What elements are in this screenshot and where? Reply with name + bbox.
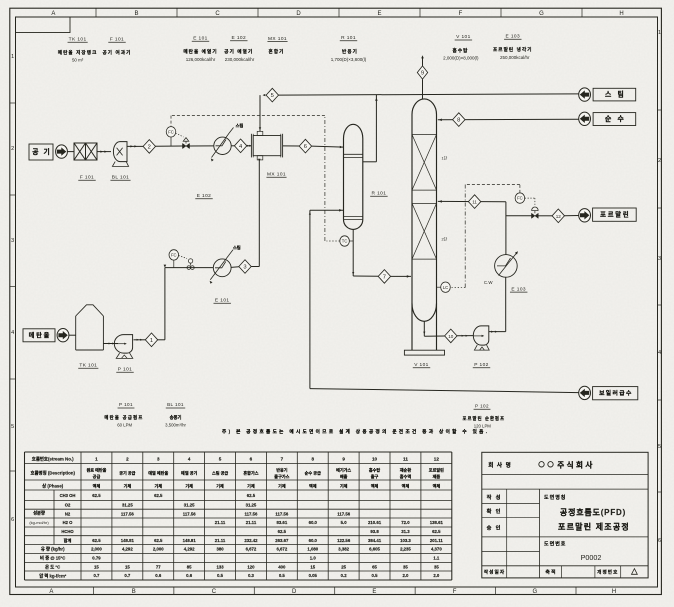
svg-text:62.5: 62.5	[432, 529, 441, 534]
feed label box boiler feed water (보일러급수)	[593, 387, 638, 400]
svg-text:21.11: 21.11	[215, 520, 226, 525]
svg-text:원료 메탄올: 원료 메탄올	[86, 467, 106, 473]
steam header wire	[279, 94, 579, 95]
io arrow symbol methanol	[57, 329, 69, 342]
steam riser from R101 to header	[363, 161, 377, 163]
svg-text:포르말린: 포르말린	[429, 467, 444, 473]
flow controller instrument on air line	[166, 127, 176, 137]
svg-text:E 101: E 101	[215, 298, 230, 304]
svg-text:G: G	[532, 589, 537, 595]
stream node 6	[299, 139, 311, 153]
svg-text:77: 77	[156, 564, 161, 569]
wire valve to E102	[189, 145, 213, 147]
svg-text:P 102: P 102	[474, 362, 488, 368]
stream node 4	[234, 139, 246, 153]
wire stream10 to pump P102	[457, 335, 473, 337]
svg-text:액체: 액체	[93, 483, 101, 489]
svg-text:201.11: 201.11	[430, 538, 444, 543]
vent arrow to atmosphere	[422, 57, 424, 66]
svg-text:1: 1	[658, 30, 661, 36]
svg-text:TK 101: TK 101	[79, 363, 97, 369]
svg-text:성분량: 성분량	[33, 510, 45, 517]
svg-text:FC: FC	[171, 253, 177, 258]
svg-text:5.0: 5.0	[341, 520, 348, 525]
svg-text:R 101: R 101	[371, 191, 386, 197]
svg-text:P 101: P 101	[119, 402, 133, 407]
svg-text:포르말린: 포르말린	[600, 210, 630, 219]
svg-text:C.W: C.W	[484, 280, 493, 285]
svg-text:도면번호: 도면번호	[544, 541, 566, 548]
svg-text:주) 본 공정흐름도는 예시도면이므로 설계 상용공정의 운: 주) 본 공정흐름도는 예시도면이므로 설계 상용공정의 운전조건 등과 상이할…	[222, 428, 489, 435]
svg-text:5: 5	[271, 93, 274, 99]
svg-text:1: 1	[150, 338, 153, 344]
svg-text:2.0: 2.0	[433, 573, 440, 578]
svg-text:비 중 @ 15°C: 비 중 @ 15°C	[40, 555, 65, 562]
packed bed 1	[412, 134, 437, 136]
control signal TC loop dashed	[327, 240, 340, 242]
cooling water arrow through E103	[499, 252, 518, 275]
svg-text:포르말린 냉각기: 포르말린 냉각기	[493, 46, 533, 53]
svg-text:148.81: 148.81	[121, 538, 135, 543]
io arrow symbol pure water	[579, 112, 591, 125]
svg-text:6: 6	[658, 538, 661, 544]
svg-text:230,000kcal/hr: 230,000kcal/hr	[225, 57, 255, 62]
heat exchanger E102 (air preheater)	[214, 137, 231, 154]
level controller LC	[437, 286, 441, 288]
svg-text:H2 O: H2 O	[63, 520, 74, 525]
svg-text:보일러급수: 보일러급수	[599, 389, 633, 397]
title block frame	[482, 452, 648, 578]
svg-text:3: 3	[11, 238, 14, 244]
svg-text:포르말린 제조공정: 포르말린 제조공정	[558, 522, 630, 532]
recycle inlet wire	[438, 200, 506, 202]
svg-text:15: 15	[310, 564, 315, 569]
pump discharge wire up to cooler	[489, 331, 506, 333]
svg-text:0.7: 0.7	[124, 573, 131, 578]
svg-text:31.25: 31.25	[122, 503, 133, 508]
grid letter strip top	[95, 8, 97, 17]
svg-text:축 적: 축 적	[545, 569, 555, 576]
svg-text:263.67: 263.67	[275, 538, 289, 543]
svg-text:232.42: 232.42	[244, 538, 258, 543]
control signal LC-FC dashed loop	[519, 185, 521, 193]
svg-text:60.0: 60.0	[309, 520, 318, 525]
svg-text:R 101: R 101	[341, 35, 356, 41]
stream node 7	[378, 270, 390, 284]
steam inlet arrow E101	[229, 250, 233, 255]
svg-text:35: 35	[403, 564, 408, 569]
feed label box methanol (메탄올)	[23, 329, 55, 342]
svg-text:21.11: 21.11	[215, 538, 226, 543]
svg-text:P 102: P 102	[475, 404, 489, 409]
svg-text:400: 400	[278, 564, 286, 569]
svg-text:E 102: E 102	[232, 35, 247, 41]
svg-text:액체: 액체	[433, 483, 441, 489]
svg-text:1: 1	[95, 457, 98, 462]
svg-text:회 사 명: 회 사 명	[488, 461, 512, 469]
svg-text:4,292: 4,292	[184, 547, 195, 552]
svg-text:공기 예열기: 공기 예열기	[224, 48, 253, 55]
filter F101	[74, 143, 97, 160]
svg-text:BL 101: BL 101	[167, 402, 184, 407]
svg-text:P 101: P 101	[118, 367, 132, 373]
svg-text:1.1: 1.1	[433, 556, 440, 561]
stream node 9	[417, 66, 427, 79]
svg-text:2,000: 2,000	[153, 547, 164, 552]
svg-text:E 103: E 103	[511, 286, 526, 292]
svg-text:12: 12	[556, 214, 562, 219]
svg-text:31.3: 31.3	[401, 529, 410, 534]
svg-text:H: H	[619, 11, 623, 17]
svg-text:117.56: 117.56	[275, 511, 289, 516]
wire air to filter	[67, 151, 74, 153]
svg-text:60.0: 60.0	[309, 538, 318, 543]
svg-text:승 인: 승 인	[487, 524, 502, 532]
svg-text:4,292: 4,292	[122, 547, 133, 552]
svg-text:F: F	[459, 11, 463, 17]
svg-text:0.5: 0.5	[279, 573, 286, 578]
stream node 11	[468, 195, 480, 209]
svg-text:흡수탑: 흡수탑	[453, 47, 469, 54]
svg-text:11: 11	[472, 200, 477, 205]
svg-text:3: 3	[157, 457, 160, 462]
svg-text:3,500m³/hr: 3,500m³/hr	[165, 423, 186, 428]
wire mixer outlet to stream6	[283, 145, 300, 147]
svg-text:0.5: 0.5	[372, 573, 379, 578]
svg-text:4: 4	[658, 350, 661, 356]
wire filter to blower	[97, 151, 111, 153]
svg-text:상 (Phase): 상 (Phase)	[42, 483, 64, 490]
svg-text:흡수액: 흡수액	[400, 473, 412, 479]
svg-text:117.56: 117.56	[183, 511, 197, 516]
svg-text:D: D	[292, 589, 297, 595]
svg-text:2,000: 2,000	[91, 547, 102, 552]
svg-text:메탄올 저장탱크: 메탄올 저장탱크	[58, 49, 98, 56]
svg-text:35: 35	[434, 564, 439, 569]
svg-text:기체: 기체	[278, 483, 286, 489]
pump P102	[473, 326, 489, 345]
svg-text:3,382: 3,382	[338, 547, 349, 552]
svg-text:11: 11	[403, 457, 408, 462]
svg-text:5: 5	[219, 457, 222, 462]
svg-text:흐름명칭 (Description): 흐름명칭 (Description)	[30, 470, 75, 477]
wire steam down into mixer top	[259, 95, 261, 131]
svg-text:C: C	[212, 589, 217, 595]
svg-text:혼합기: 혼합기	[269, 48, 285, 55]
svg-text:1,700(D)×3,800(l): 1,700(D)×3,800(l)	[331, 57, 367, 62]
svg-text:93.8: 93.8	[370, 529, 379, 534]
svg-text:117.56: 117.56	[244, 511, 258, 516]
product label box steam (스팀)	[593, 88, 636, 101]
product control valve	[532, 213, 539, 218]
svg-text:1,080: 1,080	[307, 547, 318, 552]
svg-text:B: B	[134, 11, 138, 17]
svg-text:D: D	[296, 11, 301, 17]
flow controller FC product	[515, 193, 525, 203]
io arrow symbol air	[56, 145, 68, 158]
svg-text:E 103: E 103	[506, 34, 521, 40]
svg-text:210.61: 210.61	[368, 520, 382, 525]
svg-text:5: 5	[658, 444, 661, 450]
cooler E103	[495, 255, 518, 278]
svg-text:F: F	[453, 589, 457, 595]
svg-text:E: E	[372, 589, 376, 595]
svg-text:액체: 액체	[309, 483, 317, 489]
svg-text:흡수탑: 흡수탑	[369, 467, 381, 473]
svg-text:작성일자: 작성일자	[484, 569, 505, 576]
svg-text:합계: 합계	[64, 537, 72, 544]
wire methanol to tank	[69, 334, 76, 336]
svg-text:122.56: 122.56	[337, 538, 351, 543]
svg-text:2,235: 2,235	[400, 547, 411, 552]
svg-text:4: 4	[188, 457, 191, 462]
svg-text:V 101: V 101	[456, 34, 471, 40]
svg-text:액체: 액체	[371, 483, 379, 489]
stream node 2	[143, 140, 155, 154]
svg-text:8: 8	[457, 118, 460, 124]
svg-text:21.11: 21.11	[246, 520, 257, 525]
svg-text:H: H	[612, 589, 616, 595]
bottom dished head	[412, 304, 437, 322]
svg-text:31.25: 31.25	[184, 503, 195, 508]
io arrow symbol boiler feed water	[579, 386, 591, 399]
svg-text:MX 101: MX 101	[267, 172, 286, 178]
svg-text:G: G	[539, 11, 544, 17]
svg-text:공 기: 공 기	[32, 147, 51, 156]
stream node 1	[145, 333, 157, 347]
svg-text:주식회사: 주식회사	[557, 459, 595, 469]
svg-text:62.5: 62.5	[92, 538, 101, 543]
svg-text:A: A	[49, 589, 53, 595]
svg-text:순 수: 순 수	[605, 114, 626, 123]
svg-text:6: 6	[250, 457, 253, 462]
svg-text:C: C	[215, 11, 220, 17]
svg-text:공기 여과기: 공기 여과기	[102, 49, 131, 56]
flow controller FC methanol	[169, 250, 179, 260]
svg-text:62.5: 62.5	[154, 538, 163, 543]
svg-text:흐름번호(stream No.): 흐름번호(stream No.)	[32, 456, 74, 463]
methanol storage tank TK101	[76, 305, 104, 316]
wire to formalin outlet	[565, 215, 579, 217]
svg-text:15: 15	[94, 564, 99, 569]
svg-text:120: 120	[247, 564, 255, 569]
wire blower to stream2	[127, 145, 143, 147]
vent wire from column top	[422, 79, 424, 99]
product label box formalin (포르말린)	[593, 208, 637, 221]
svg-text:9: 9	[342, 457, 345, 462]
svg-text:72.0: 72.0	[401, 520, 410, 525]
svg-text:60 LPM: 60 LPM	[117, 423, 132, 428]
svg-text:(kg-mol/hr): (kg-mol/hr)	[29, 520, 49, 525]
svg-text:메탄올 공급펌프: 메탄올 공급펌프	[104, 414, 143, 421]
svg-text:MX 101: MX 101	[268, 36, 287, 42]
grid letter strip bottom	[92, 587, 94, 595]
svg-text:380: 380	[216, 547, 224, 552]
svg-text:스팀 공급: 스팀 공급	[212, 470, 228, 476]
svg-text:기체: 기체	[216, 483, 224, 489]
svg-text:12: 12	[434, 457, 440, 462]
svg-text:A: A	[51, 11, 55, 17]
pure water inlet wire	[438, 118, 579, 121]
svg-text:250,000kcal/hr: 250,000kcal/hr	[500, 55, 530, 60]
boiler feed water header wire	[310, 389, 579, 393]
svg-text:배기가스: 배기가스	[336, 467, 351, 473]
svg-text:2단: 2단	[442, 237, 448, 242]
svg-text:7: 7	[383, 274, 386, 280]
svg-text:10: 10	[448, 334, 454, 339]
svg-text:TK 101: TK 101	[69, 37, 87, 43]
svg-text:스팀: 스팀	[236, 122, 244, 129]
svg-text:6,605: 6,605	[369, 547, 380, 552]
svg-text:62.5: 62.5	[278, 529, 287, 534]
temperature controller TC at reactor	[340, 236, 350, 246]
svg-text:6,672: 6,672	[246, 547, 257, 552]
pump P101	[114, 335, 132, 354]
svg-text:O2: O2	[65, 503, 71, 508]
svg-text:0.7: 0.7	[93, 573, 100, 578]
wire E101 to stream3	[231, 266, 239, 269]
svg-text:N2: N2	[65, 511, 71, 516]
svg-text:개정번호: 개정번호	[597, 569, 618, 576]
svg-text:기체: 기체	[154, 483, 162, 489]
svg-text:E 102: E 102	[197, 193, 212, 199]
absorber V101 column	[412, 99, 437, 115]
io arrow symbol formalin	[579, 209, 591, 222]
wire stream6 to reactor R101	[312, 146, 344, 147]
svg-text:0.79: 0.79	[92, 556, 101, 561]
svg-text:압 력 kg-f/cm²: 압 력 kg-f/cm²	[39, 572, 67, 579]
feed label box pure water (순수)	[593, 113, 636, 126]
svg-text:E: E	[377, 11, 381, 17]
svg-text:7: 7	[281, 457, 284, 462]
svg-text:E 101: E 101	[193, 36, 208, 42]
svg-text:도면명칭: 도면명칭	[544, 494, 566, 501]
svg-text:기체: 기체	[185, 483, 193, 489]
svg-text:출구: 출구	[371, 473, 379, 479]
svg-text:송풍기: 송풍기	[170, 414, 182, 421]
svg-text:103.3: 103.3	[400, 538, 411, 543]
svg-text:1: 1	[11, 54, 14, 60]
svg-text:120 LPM: 120 LPM	[474, 424, 492, 429]
wire E103 outlet up to recycle junction	[505, 202, 507, 255]
wire stream4 to mixer	[247, 145, 252, 147]
svg-text:FC: FC	[517, 196, 523, 201]
svg-text:5: 5	[11, 424, 14, 430]
grid number strip right	[658, 109, 662, 111]
svg-text:2: 2	[148, 144, 151, 150]
svg-text:예열 공기: 예열 공기	[181, 470, 197, 476]
top-left revision box	[16, 17, 71, 33]
svg-text:10: 10	[372, 457, 378, 462]
svg-text:3: 3	[658, 256, 661, 262]
svg-text:50 m³: 50 m³	[72, 58, 84, 63]
boiler feed water into R101	[310, 209, 344, 211]
svg-text:0.6: 0.6	[186, 573, 193, 578]
svg-text:공기 공급: 공기 공급	[119, 470, 135, 476]
svg-text:2: 2	[658, 158, 661, 164]
svg-text:0.3: 0.3	[248, 573, 255, 578]
svg-text:TC: TC	[342, 239, 348, 244]
svg-text:FC: FC	[168, 129, 174, 134]
svg-text:1단: 1단	[442, 156, 448, 161]
stream table grid	[25, 451, 452, 453]
svg-text:6: 6	[11, 517, 14, 523]
svg-text:126,000kcal/hr: 126,000kcal/hr	[186, 57, 216, 62]
svg-text:2,000(D)×8,000(l): 2,000(D)×8,000(l)	[443, 56, 479, 61]
svg-text:1.0: 1.0	[310, 556, 317, 561]
stream node 8	[453, 113, 465, 127]
svg-text:순수 공급: 순수 공급	[305, 470, 321, 476]
svg-text:9: 9	[421, 71, 424, 77]
steam inlet arrow E102	[229, 128, 233, 134]
wire stream3 up to mixer bottom	[251, 266, 259, 268]
svg-text:기체: 기체	[340, 483, 348, 489]
column base plate	[404, 350, 444, 355]
stream node 12	[552, 209, 564, 223]
svg-text:스 팀: 스 팀	[605, 90, 626, 99]
feed label box air (공기)	[29, 144, 53, 160]
svg-text:0.2: 0.2	[341, 573, 348, 578]
svg-text:유 량 (kg/hr): 유 량 (kg/hr)	[41, 546, 65, 553]
heat exchanger E101 (methanol vaporizer)	[213, 259, 231, 277]
svg-text:117.56: 117.56	[121, 511, 135, 516]
svg-text:메탄올 예열기: 메탄올 예열기	[183, 48, 217, 55]
svg-text:31.25: 31.25	[246, 503, 257, 508]
air control valve TV	[183, 143, 190, 148]
svg-text:공정흐름도(PFD): 공정흐름도(PFD)	[560, 507, 626, 517]
svg-text:메탄올: 메탄올	[29, 331, 51, 339]
svg-text:15: 15	[125, 564, 130, 569]
svg-text:HCHO: HCHO	[61, 529, 74, 534]
wire pump to stream1	[134, 339, 146, 341]
svg-text:반응기: 반응기	[276, 467, 288, 473]
svg-text:혼합가스: 혼합가스	[243, 470, 258, 476]
reactor outlet wire to stream7	[352, 229, 354, 276]
svg-text:배출: 배출	[340, 473, 348, 479]
svg-text:83.61: 83.61	[276, 520, 287, 525]
svg-text:출구가스: 출구가스	[274, 473, 289, 479]
wire tank to pump P101	[103, 343, 118, 345]
svg-text:F 101: F 101	[110, 37, 124, 43]
svg-text:B: B	[132, 589, 136, 595]
svg-text:62.5: 62.5	[92, 493, 101, 498]
reactor R101 vessel	[344, 124, 363, 138]
svg-text:4: 4	[11, 330, 14, 336]
stream node 10	[445, 329, 457, 343]
svg-text:65: 65	[372, 564, 377, 569]
svg-text:6: 6	[304, 144, 307, 150]
svg-text:2.0: 2.0	[402, 573, 409, 578]
methanol control valve	[188, 259, 192, 263]
svg-text:작 성: 작 성	[487, 493, 502, 501]
svg-text:25: 25	[341, 564, 346, 569]
svg-text:확 인: 확 인	[487, 507, 502, 515]
svg-text:F 101: F 101	[80, 175, 94, 181]
svg-text:0.5: 0.5	[217, 573, 224, 578]
svg-text:재순환: 재순환	[400, 467, 412, 473]
svg-text:62.5: 62.5	[154, 493, 163, 498]
wire E102 to stream4	[231, 145, 234, 147]
product line from junction	[506, 215, 532, 217]
mixer MX101	[253, 136, 281, 156]
svg-text:2: 2	[126, 457, 129, 462]
svg-text:2: 2	[11, 146, 14, 152]
svg-text:0.6: 0.6	[155, 573, 162, 578]
svg-text:3: 3	[243, 265, 246, 271]
grid number strip left	[10, 102, 16, 104]
wire stream7 to absorber V101	[391, 275, 411, 277]
svg-text:148.81: 148.81	[183, 538, 197, 543]
